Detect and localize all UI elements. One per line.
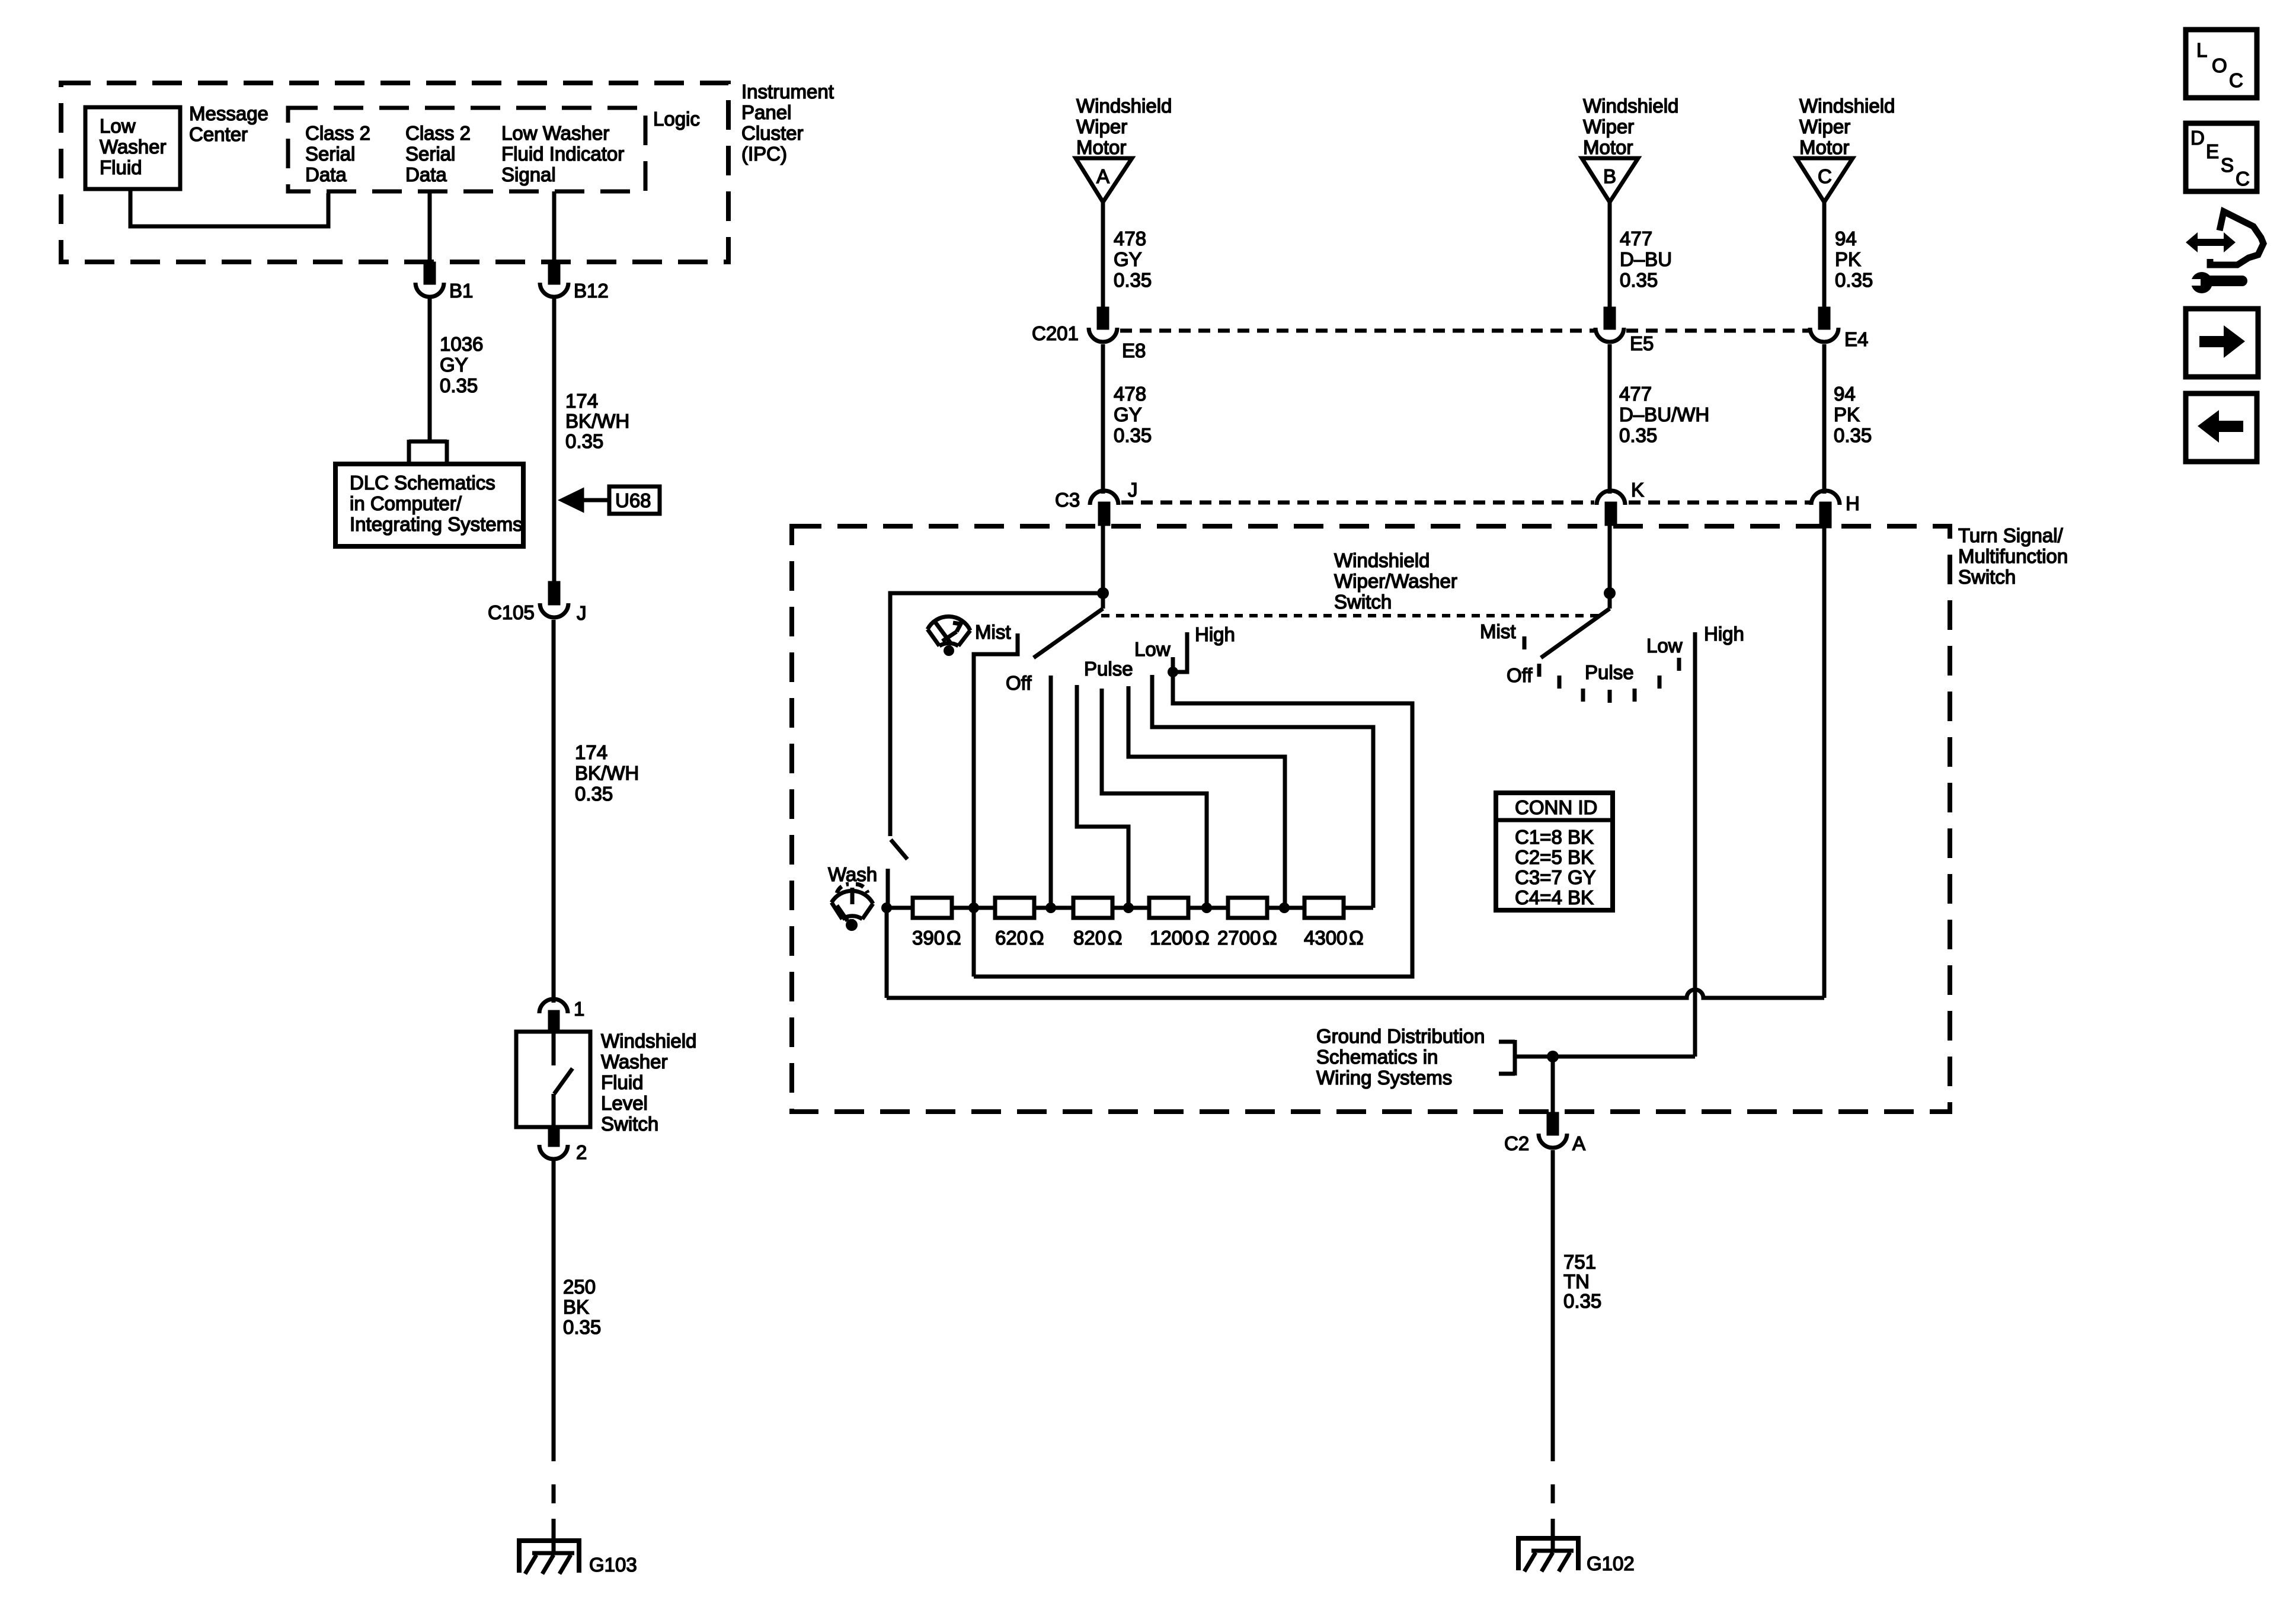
svg-text:Multifunction: Multifunction [1958, 545, 2068, 567]
svg-text:BK: BK [563, 1296, 589, 1318]
svg-text:Pulse: Pulse [1084, 658, 1133, 680]
label pin 1 [574, 998, 584, 1020]
svg-text:1200 Ω: 1200 Ω [1150, 927, 1210, 949]
label C [1818, 165, 1832, 187]
ground G102 [1516, 1536, 1581, 1571]
junction node off tap [1045, 902, 1056, 913]
forward arrow [2199, 325, 2245, 358]
svg-text:0.35: 0.35 [440, 375, 478, 396]
label Wash [828, 863, 877, 885]
pulse contact wire 4 [1152, 675, 1373, 908]
label 620 ohm [995, 927, 1044, 949]
label E4 [1844, 328, 1868, 350]
label B1 [449, 280, 473, 302]
wire 751 TN to ground [1551, 1150, 1555, 1461]
svg-text:478: 478 [1114, 383, 1146, 405]
resistor 2700 ohm [1228, 898, 1267, 918]
label LOC [2196, 39, 2243, 91]
svg-text:Switch: Switch [1958, 566, 2016, 588]
svg-text:477: 477 [1619, 383, 1652, 405]
mechanical link dashed line between switch sections [1101, 614, 1599, 617]
junction node pulse tap 3 [1279, 902, 1290, 913]
connector C3 pin J [1090, 491, 1118, 524]
dashed harness line E5 to E4 [1626, 329, 1809, 333]
svg-text:Low: Low [1646, 635, 1683, 657]
svg-text:(IPC): (IPC) [741, 143, 787, 165]
svg-text:Wiring Systems: Wiring Systems [1316, 1067, 1452, 1089]
High contact wire [1173, 632, 1187, 672]
svg-text:Data: Data [405, 164, 447, 185]
svg-text:2: 2 [576, 1141, 587, 1163]
label Instrument Panel Cluster (IPC) [741, 81, 834, 165]
svg-text:J: J [577, 602, 587, 624]
Low contact tick (switch 2) [1677, 658, 1681, 671]
wire label 477 D-BU 0.35 [1620, 228, 1672, 291]
label G103 [589, 1554, 637, 1576]
svg-text:Wiper/Washer: Wiper/Washer [1334, 570, 1457, 592]
svg-text:TN: TN [1563, 1270, 1590, 1292]
label C105 [488, 601, 535, 623]
LOC legend box [2186, 30, 2257, 98]
svg-text:94: 94 [1834, 383, 1856, 405]
motor terminal triangle B [1582, 158, 1638, 202]
svg-text:Motor: Motor [1076, 136, 1126, 158]
svg-text:L: L [2196, 39, 2207, 61]
svg-text:0.35: 0.35 [1114, 424, 1152, 446]
Off contact tick (switch 2) [1537, 664, 1542, 677]
resistor 390 ohm [913, 898, 952, 918]
svg-text:0.35: 0.35 [1114, 269, 1152, 291]
junction node Low/High [1168, 667, 1178, 677]
label Low Washer Fluid Indicator Signal [501, 122, 624, 185]
U68 reference arrow [562, 491, 609, 510]
svg-text:GY: GY [1114, 248, 1142, 270]
svg-text:0.35: 0.35 [565, 430, 603, 452]
svg-text:Fluid: Fluid [601, 1071, 644, 1093]
back arrow legend box [2186, 393, 2257, 462]
U68 box [609, 486, 660, 514]
svg-text:C4=4 BK: C4=4 BK [1515, 886, 1594, 908]
pulse position ticks (switch 2) [1559, 676, 1659, 703]
svg-text:Off: Off [1507, 664, 1533, 686]
label 820 ohm [1073, 927, 1122, 949]
label Windshield Washer Fluid Level Switch [601, 1030, 696, 1135]
Instrument Panel Cluster (IPC) dashed box [61, 83, 728, 262]
label 1200 ohm [1150, 927, 1210, 949]
svg-text:820 Ω: 820 Ω [1073, 927, 1122, 949]
label H [1846, 492, 1860, 514]
label E5 [1630, 332, 1654, 354]
label J (C3) [1128, 479, 1138, 501]
svg-text:Motor: Motor [1799, 136, 1849, 158]
svg-text:1: 1 [574, 998, 584, 1020]
svg-text:Turn Signal/: Turn Signal/ [1958, 524, 2064, 546]
washer spray icon at Wash [832, 884, 873, 931]
svg-text:Washer: Washer [601, 1051, 667, 1073]
svg-text:C2=5 BK: C2=5 BK [1515, 846, 1594, 868]
svg-text:A: A [1572, 1132, 1585, 1154]
back arrow [2198, 410, 2243, 443]
Mist contact wire to 390/620 tap [974, 633, 1018, 977]
svg-text:BK/WH: BK/WH [575, 762, 639, 784]
svg-text:K: K [1631, 479, 1644, 501]
CONN ID table box [1496, 793, 1613, 910]
resistor chain line [887, 906, 1373, 910]
Logic dashed box [288, 108, 645, 191]
svg-text:High: High [1195, 623, 1235, 645]
junction node wash tap [881, 902, 892, 913]
wire label 751 TN 0.35 [1563, 1251, 1601, 1312]
junction node ground distribution [1547, 1051, 1559, 1062]
wire dash segment above G103 [552, 1484, 556, 1541]
ground distribution bracket [1499, 1040, 1515, 1076]
svg-text:S: S [2221, 154, 2234, 176]
svg-text:GY: GY [1114, 404, 1142, 425]
label Low (switch 1) [1134, 638, 1171, 660]
wire label 94 PK 0.35 (lower) [1834, 383, 1872, 446]
label Mist (switch 1) [975, 621, 1011, 643]
label Windshield Wiper/Washer Switch [1334, 549, 1457, 613]
svg-text:Windshield: Windshield [1799, 95, 1895, 117]
connector C201 pin E4 [1810, 309, 1838, 342]
svg-text:390 Ω: 390 Ω [912, 927, 961, 949]
wire 174 BK/WH pin B12 to C105 [552, 297, 557, 583]
label 390 ohm [912, 927, 961, 949]
svg-text:Windshield: Windshield [1583, 95, 1678, 117]
label E8 [1122, 340, 1146, 361]
svg-text:478: 478 [1114, 228, 1146, 249]
svg-text:C3: C3 [1055, 489, 1080, 511]
label 2700 ohm [1217, 927, 1277, 949]
High contact wire to ground junction [1693, 632, 1697, 1057]
forward arrow legend box [2186, 309, 2258, 377]
svg-text:C: C [1818, 165, 1832, 187]
wire 250 BK to ground [552, 1159, 556, 1461]
svg-text:174: 174 [575, 741, 607, 763]
resistor 620 ohm [995, 898, 1034, 918]
svg-text:Schematics in: Schematics in [1316, 1046, 1438, 1068]
wire class 2 serial data to pin B1 [428, 191, 432, 265]
svg-text:C1=8 BK: C1=8 BK [1515, 826, 1594, 848]
svg-text:D–BU: D–BU [1620, 248, 1672, 270]
wire label 94 PK 0.35 (upper) [1835, 228, 1873, 291]
label Low (switch 2) [1646, 635, 1683, 657]
svg-text:Message: Message [189, 103, 268, 124]
svg-text:Data: Data [305, 164, 347, 185]
svg-text:Pulse: Pulse [1585, 661, 1634, 683]
svg-text:Signal: Signal [501, 164, 556, 185]
wire common to wash switch branch [890, 593, 1103, 836]
Low contact tick [1171, 657, 1175, 672]
svg-text:U68: U68 [615, 489, 651, 511]
svg-text:E8: E8 [1122, 340, 1146, 361]
label B [1603, 165, 1616, 187]
label Ground Distribution Schematics in Wiring Systems [1316, 1025, 1485, 1089]
DLC Schematics reference box [335, 464, 523, 546]
dashed harness line K to H [1629, 501, 1810, 505]
junction node wiper switch 1 common [1097, 587, 1109, 599]
svg-text:Mist: Mist [975, 621, 1011, 643]
wire 477 D-BU/WH E5 to K [1608, 344, 1612, 494]
svg-text:Cluster: Cluster [741, 122, 804, 144]
svg-text:94: 94 [1835, 228, 1857, 249]
wash switch contact [886, 869, 890, 908]
wire label 477 D-BU/WH 0.35 [1619, 383, 1709, 446]
label B12 [574, 280, 609, 302]
wiper icon at Mist (switch 1) [928, 616, 970, 656]
svg-text:B1: B1 [449, 280, 473, 302]
DLC bracket [409, 440, 447, 464]
svg-text:C2: C2 [1504, 1132, 1529, 1154]
svg-text:250: 250 [563, 1276, 596, 1298]
connector pin B12 [540, 264, 568, 297]
label Mist (switch 2) [1480, 620, 1516, 642]
connector C201 pin E5 [1595, 309, 1624, 342]
wire 94 PK motor C to E4 [1822, 202, 1827, 309]
svg-text:B12: B12 [574, 280, 609, 302]
label Windshield Wiper Motor C [1799, 95, 1895, 158]
Mist contact tick (switch 2) [1523, 636, 1527, 649]
ground G103 [517, 1538, 581, 1574]
svg-text:Switch: Switch [1334, 591, 1392, 613]
svg-text:PK: PK [1834, 404, 1860, 425]
resistor 4300 ohm [1304, 898, 1344, 918]
wire 477 D-BU motor B to E5 [1608, 202, 1612, 309]
wire C105 to washer fluid level switch [552, 620, 556, 1003]
label A [1096, 165, 1109, 187]
resistor 820 ohm [1073, 898, 1112, 918]
label G102 [1587, 1553, 1635, 1574]
svg-text:Instrument: Instrument [741, 81, 834, 103]
svg-text:0.35: 0.35 [1619, 424, 1657, 446]
svg-text:Off: Off [1006, 672, 1032, 694]
junction node mist tap [968, 902, 979, 913]
svg-text:Serial: Serial [305, 143, 355, 165]
svg-text:Integrating Systems: Integrating Systems [350, 513, 523, 535]
wire message center to class 2 serial data [130, 189, 328, 226]
wire junction to C2 [1551, 1057, 1555, 1114]
label High (switch 2) [1704, 623, 1744, 645]
svg-text:G102: G102 [1587, 1553, 1635, 1574]
wire H pin to bottom run [1822, 526, 1827, 998]
svg-text:D: D [2191, 127, 2205, 149]
label Logic [653, 108, 700, 130]
wire label 174 BK/WH 0.35 [565, 390, 629, 452]
svg-text:2700 Ω: 2700 Ω [1217, 927, 1277, 949]
wiper switch 1 wiper arm [1034, 597, 1103, 658]
svg-text:Panel: Panel [741, 101, 791, 123]
Windshield Washer Fluid Level Switch box [516, 1032, 590, 1127]
svg-text:Wiper: Wiper [1076, 116, 1127, 137]
svg-text:DLC Schematics: DLC Schematics [350, 472, 495, 494]
connector C3 pin H [1811, 491, 1840, 526]
svg-text:Windshield: Windshield [1076, 95, 1172, 117]
svg-text:in Computer/: in Computer/ [350, 492, 462, 514]
svg-text:Windshield: Windshield [601, 1030, 696, 1052]
label Windshield Wiper Motor B [1583, 95, 1678, 158]
diagnostic wrench icon [2186, 212, 2263, 293]
wire 1036 GY to DLC [428, 297, 432, 440]
label Off (switch 1) [1006, 672, 1032, 694]
label Message Center [189, 103, 268, 145]
svg-text:Wash: Wash [828, 863, 877, 885]
junction node wiper switch 2 common [1604, 587, 1616, 599]
wire 478 GY C201 to C3 [1101, 344, 1105, 494]
svg-text:Windshield: Windshield [1334, 549, 1430, 571]
svg-text:620 Ω: 620 Ω [995, 927, 1044, 949]
pulse contact wire 2 [1102, 689, 1207, 908]
svg-text:Wiper: Wiper [1583, 116, 1634, 137]
svg-text:CONN ID: CONN ID [1515, 796, 1597, 818]
connector C2 pin A [1539, 1114, 1567, 1148]
svg-text:0.35: 0.35 [1620, 269, 1658, 291]
svg-text:751: 751 [1563, 1251, 1596, 1273]
label Windshield Wiper Motor A [1076, 95, 1172, 158]
wire label 250 BK 0.35 [563, 1276, 601, 1338]
svg-text:H: H [1846, 492, 1860, 514]
label Pulse (switch 2) [1585, 661, 1634, 683]
svg-text:1036: 1036 [440, 333, 483, 355]
svg-text:Fluid Indicator: Fluid Indicator [501, 143, 624, 165]
wash switch arm [891, 840, 907, 859]
connector pin B1 [415, 264, 444, 297]
label C201 [1032, 322, 1079, 344]
svg-text:Motor: Motor [1583, 136, 1633, 158]
label DESC [2191, 127, 2250, 190]
wire 478 GY motor A to C201 [1101, 202, 1105, 309]
svg-text:Class 2: Class 2 [405, 122, 471, 144]
svg-text:0.35: 0.35 [575, 783, 613, 805]
label Turn Signal/Multifunction Switch [1958, 524, 2068, 588]
svg-text:Low Washer: Low Washer [501, 122, 609, 144]
label K [1631, 479, 1644, 501]
junction node pulse tap 1 [1123, 902, 1134, 913]
wire label 1036 GY 0.35 [440, 333, 483, 396]
label A (C2 pin) [1572, 1132, 1585, 1154]
svg-text:Level: Level [601, 1092, 648, 1114]
wire 94 PK E4 to H [1822, 344, 1827, 494]
svg-text:Serial: Serial [405, 143, 455, 165]
DESC legend box [2186, 123, 2257, 191]
svg-text:E: E [2206, 140, 2219, 162]
label Class 2 Serial Data (message center side) [305, 122, 370, 185]
svg-text:0.35: 0.35 [563, 1316, 601, 1338]
svg-text:0.35: 0.35 [1834, 424, 1872, 446]
label connector id rows [1515, 826, 1596, 908]
pulse contact wire 3 [1128, 686, 1285, 908]
resistor 1200 ohm [1149, 898, 1188, 918]
wire dash segment above G102 [1551, 1484, 1555, 1538]
svg-text:Fluid: Fluid [100, 156, 142, 178]
wire label 174 BK/WH 0.35 (lower) [575, 741, 639, 805]
label Pulse (switch 1) [1084, 658, 1133, 680]
Off contact wire to 620/820 tap [1049, 676, 1053, 908]
svg-text:G103: G103 [589, 1554, 637, 1576]
svg-text:C3=7 GY: C3=7 GY [1515, 866, 1596, 888]
svg-text:D–BU/WH: D–BU/WH [1619, 404, 1709, 425]
connector pin 1 washer switch [539, 999, 568, 1032]
wiper switch 2 wiper arm [1541, 597, 1610, 658]
svg-text:BK/WH: BK/WH [565, 410, 629, 432]
label C2 [1504, 1132, 1529, 1154]
connector C201 pin E8 [1089, 309, 1117, 342]
svg-text:High: High [1704, 623, 1744, 645]
wire wash tap down [885, 908, 889, 998]
junction node pulse tap 2 [1201, 902, 1212, 913]
pulse contact wire 1 [1077, 685, 1128, 908]
svg-text:Ground Distribution: Ground Distribution [1316, 1025, 1485, 1047]
svg-text:C201: C201 [1032, 322, 1079, 344]
label U68 [615, 489, 651, 511]
connector C105 pin J [540, 583, 568, 617]
wire bracket to high wire [1515, 1055, 1695, 1059]
label DLC Schematics in Computer/Integrating Systems [350, 472, 523, 535]
svg-text:Logic: Logic [653, 108, 700, 130]
svg-text:477: 477 [1620, 228, 1652, 249]
label J (C105) [577, 602, 587, 624]
wire K pin into switch common 2 [1608, 524, 1612, 593]
svg-text:E5: E5 [1630, 332, 1654, 354]
label CONN ID [1515, 796, 1597, 818]
wire wash bottom run with hop to H pin [887, 990, 1824, 998]
svg-text:Center: Center [189, 123, 248, 145]
label Low Washer Fluid [100, 115, 166, 178]
svg-text:Class 2: Class 2 [305, 122, 370, 144]
washer level switch contacts [554, 1032, 573, 1127]
connector pin 2 washer switch [539, 1127, 568, 1159]
svg-text:Switch: Switch [601, 1113, 658, 1135]
svg-text:0.35: 0.35 [1835, 269, 1873, 291]
dashed harness line E8 to E5 [1120, 329, 1594, 333]
wire label 478 GY 0.35 (upper) [1114, 228, 1152, 291]
svg-text:Mist: Mist [1480, 620, 1516, 642]
motor terminal triangle A [1076, 158, 1132, 202]
label High (switch 1) [1195, 623, 1235, 645]
svg-text:4300 Ω: 4300 Ω [1304, 927, 1364, 949]
svg-text:A: A [1096, 165, 1109, 187]
label C3 [1055, 489, 1080, 511]
svg-text:B: B [1603, 165, 1616, 187]
dashed harness line J to K [1121, 501, 1594, 505]
svg-text:J: J [1128, 479, 1138, 501]
wire C3 J into switch common [1101, 524, 1105, 593]
svg-text:C: C [2236, 168, 2250, 190]
Turn Signal/Multifunction Switch dashed box [792, 526, 1950, 1112]
motor terminal triangle C [1796, 158, 1853, 202]
svg-text:Low: Low [1134, 638, 1171, 660]
svg-text:Low: Low [100, 115, 136, 137]
svg-text:Wiper: Wiper [1799, 116, 1850, 137]
svg-text:GY: GY [440, 354, 468, 376]
Low Washer Fluid indicator box [85, 107, 180, 189]
wire Low/High to 390/620 tap [974, 672, 1412, 977]
svg-text:Washer: Washer [100, 136, 166, 158]
label pin 2 [576, 1141, 587, 1163]
label Off (switch 2) [1507, 664, 1533, 686]
wire low washer fluid signal to pin B12 [552, 191, 557, 265]
label 4300 ohm [1304, 927, 1364, 949]
svg-text:C105: C105 [488, 601, 535, 623]
svg-text:O: O [2212, 55, 2227, 76]
svg-text:0.35: 0.35 [1563, 1290, 1601, 1312]
connector C3 pin K [1597, 491, 1625, 524]
wire label 478 GY 0.35 (lower) [1114, 383, 1152, 446]
svg-text:PK: PK [1835, 248, 1861, 270]
svg-text:174: 174 [565, 390, 598, 412]
label Class 2 Serial Data (pin B1 side) [405, 122, 471, 185]
svg-text:E4: E4 [1844, 328, 1868, 350]
svg-text:C: C [2229, 69, 2243, 91]
